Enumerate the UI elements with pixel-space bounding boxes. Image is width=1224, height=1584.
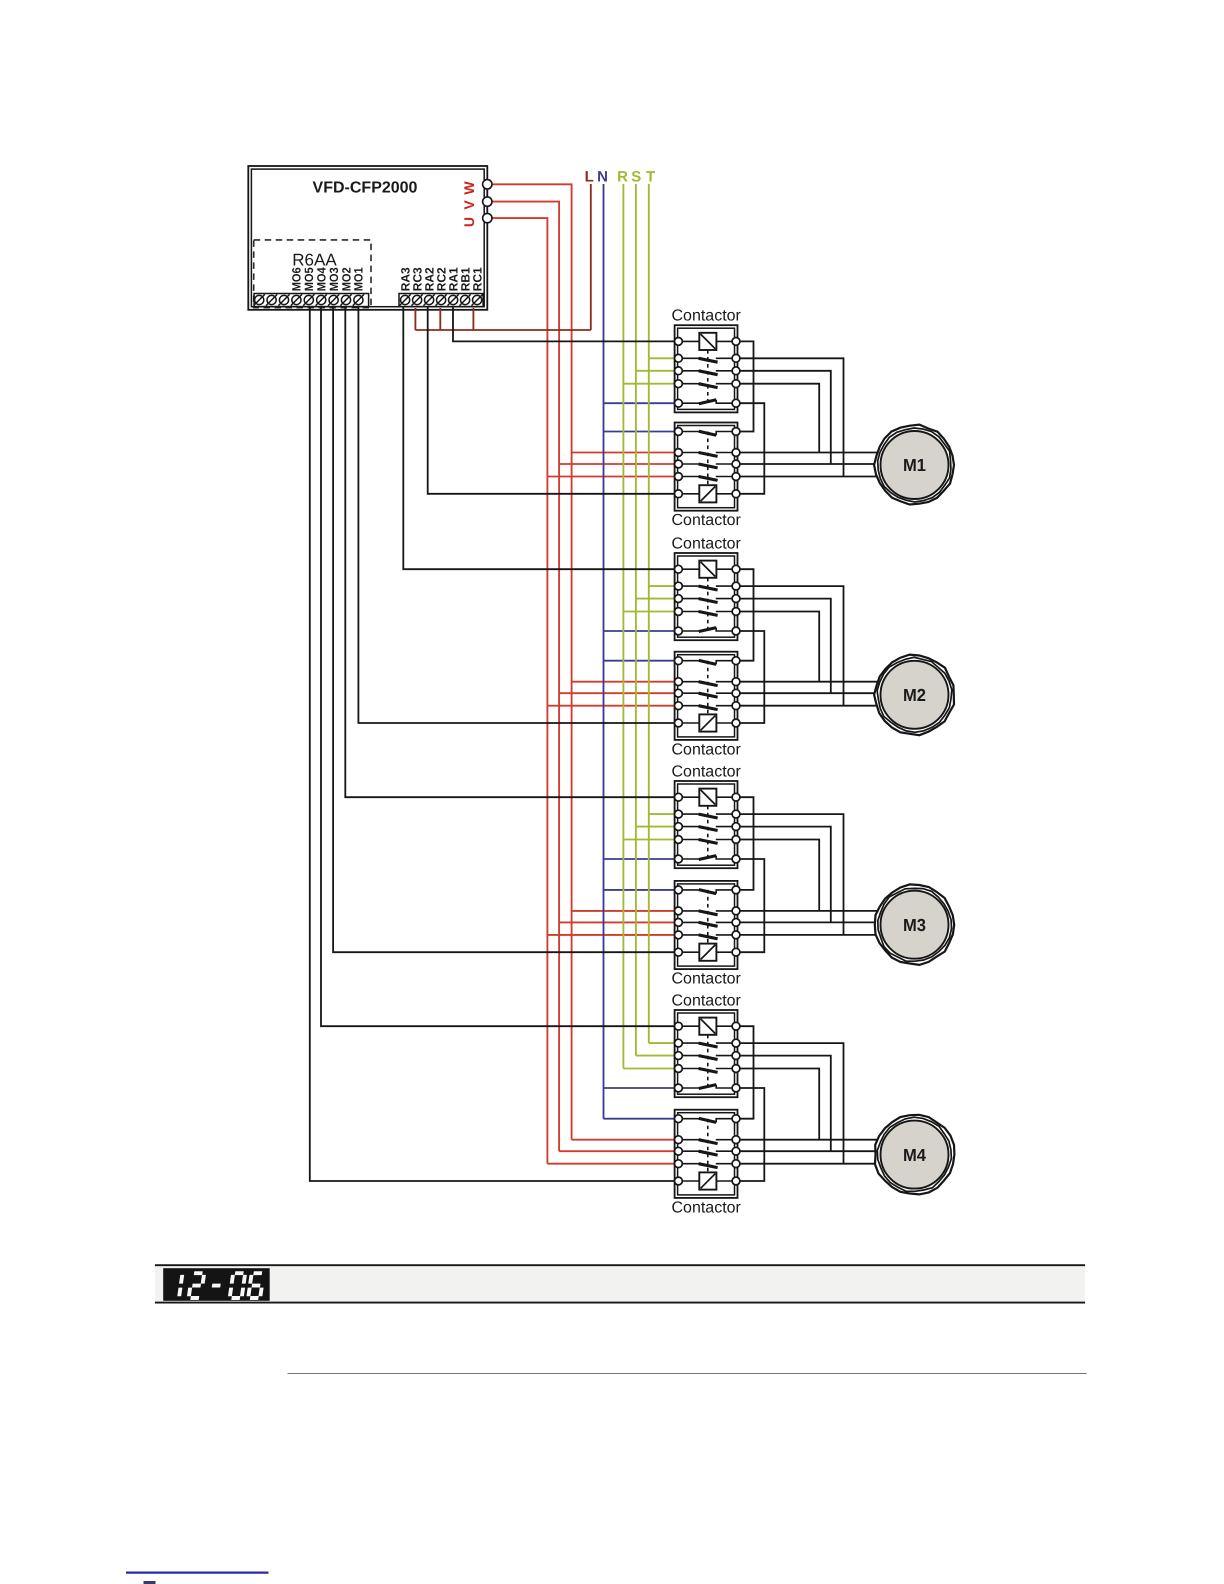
motor M2: [874, 655, 954, 736]
wire MO1 to contactor K2B coil: [358, 307, 676, 723]
svg-text:Contactor: Contactor: [672, 971, 742, 988]
svg-text:S: S: [631, 169, 641, 186]
terminal RA1: [446, 267, 460, 306]
option card R6AA: [254, 240, 371, 308]
contactor K1A (mains bypass): [675, 325, 740, 412]
svg-text:M2: M2: [903, 685, 926, 705]
net label S: [631, 169, 641, 186]
wire V (VFD output phase): [487, 202, 676, 1152]
wire RA1 to contactor K1A coil feed: [453, 307, 676, 341]
relay output terminal strip MO6..MO1: [254, 294, 369, 307]
net label R: [617, 169, 628, 186]
wire motor M4 lead 1: [736, 1139, 877, 1141]
wire motor M4 lead 2: [736, 1150, 877, 1152]
wire RA3 to contactor K2A coil feed: [403, 307, 676, 569]
svg-text:M4: M4: [903, 1145, 926, 1165]
wire K3A aux NO to K3B coil circuit: [736, 797, 754, 890]
section separator rule: [288, 1373, 1087, 1375]
wire K3A interlock to K3B coil: [736, 859, 764, 952]
svg-text:M1: M1: [903, 455, 926, 475]
label U V W (output phases): [461, 181, 477, 227]
terminal U: [483, 213, 492, 222]
wire K3A L3 bypass to motor lead 1: [736, 840, 819, 911]
wire motor M2 lead 2: [736, 692, 877, 694]
svg-text:Contactor: Contactor: [672, 993, 742, 1010]
svg-text:U: U: [461, 217, 477, 227]
contactor K3B (VFD side): [675, 881, 740, 969]
terminal MO6: [290, 267, 304, 306]
svg-text:Contactor: Contactor: [672, 764, 742, 781]
wire K4A L1 bypass to motor lead 3: [736, 1043, 844, 1164]
contactor K2B (VFD side): [675, 652, 740, 740]
label Contactor (below K4B): [672, 1199, 742, 1216]
label Contactor (below K2B): [672, 741, 742, 758]
wire motor M3 lead 1: [736, 910, 877, 912]
svg-text:W: W: [461, 181, 477, 195]
svg-text:Contactor: Contactor: [672, 512, 742, 529]
net label L: [585, 169, 594, 186]
label Contactor (above K4A): [672, 993, 742, 1010]
terminal RC2: [434, 267, 448, 306]
terminal MO spare 2: [266, 294, 277, 305]
svg-text:RC1: RC1: [470, 267, 484, 291]
wire T (mains phase): [649, 184, 676, 1043]
contactor K4B (VFD side): [675, 1110, 740, 1198]
wire K1A L1 bypass to motor lead 3: [736, 358, 844, 476]
wire MO3 to contactor K3B coil: [333, 307, 676, 952]
svg-text:N: N: [597, 169, 608, 186]
terminal MO1: [352, 267, 366, 306]
wire motor M2 lead 1: [736, 681, 877, 683]
wire motor M3 lead 3: [736, 934, 877, 936]
net label T: [646, 169, 655, 186]
contactor K4A (mains bypass): [675, 1010, 740, 1097]
wire RA2 to contactor K1B coil: [428, 307, 676, 494]
svg-text:Contactor: Contactor: [672, 308, 742, 325]
terminal MO5: [302, 267, 316, 306]
motor M1: [874, 425, 954, 505]
wire K4A L3 bypass to motor lead 1: [736, 1069, 819, 1140]
svg-text:R: R: [617, 169, 628, 186]
label Contactor (above K3A): [672, 764, 742, 781]
svg-text:VFD-CFP2000: VFD-CFP2000: [313, 180, 418, 197]
seven-segment display 12-06: [163, 1268, 270, 1301]
wire motor M2 lead 3: [736, 705, 877, 707]
wire U (VFD output phase): [487, 218, 676, 1164]
wire motor M3 lead 2: [736, 921, 877, 923]
svg-text:Contactor: Contactor: [672, 1199, 742, 1216]
terminal RC3: [410, 267, 424, 306]
wire K1A L2 bypass to motor lead 2: [736, 371, 831, 464]
terminal RA3: [398, 267, 412, 306]
terminal MO3: [327, 267, 341, 306]
wire K4A L2 bypass to motor lead 2: [736, 1056, 831, 1152]
label Contactor (below K3B): [672, 971, 742, 988]
wire K3A L1 bypass to motor lead 3: [736, 814, 844, 935]
relay terminal strip RA3..RC1: [399, 294, 483, 307]
terminal MO2: [339, 267, 353, 306]
wire K1A L3 bypass to motor lead 1: [736, 384, 819, 453]
wire K2A aux NO to K2B coil circuit: [736, 569, 754, 661]
wire K2A L3 bypass to motor lead 1: [736, 612, 819, 682]
svg-text:L: L: [585, 169, 594, 186]
motor M4: [875, 1115, 954, 1195]
net label N: [597, 169, 608, 186]
terminal MO4: [315, 267, 329, 306]
wire N (neutral): [604, 184, 677, 1119]
contactor K1B (VFD side): [675, 423, 740, 511]
wire motor M1 lead 3: [736, 476, 877, 478]
wire motor M1 lead 1: [736, 452, 877, 454]
wire motor M4 lead 3: [736, 1163, 877, 1165]
wire K2A L1 bypass to motor lead 3: [736, 586, 844, 706]
wire K2A interlock to K2B coil: [736, 631, 764, 723]
terminal RA2: [422, 267, 436, 306]
label Contactor (below K1B): [672, 512, 742, 529]
svg-text:MO1: MO1: [352, 267, 366, 291]
wire K4A aux NO to K4B coil circuit: [736, 1026, 754, 1119]
wire K1A interlock to K1B coil: [736, 403, 764, 494]
svg-text:M3: M3: [903, 915, 926, 935]
terminal MO spare 3: [278, 294, 289, 305]
terminal RB1: [458, 267, 472, 306]
footer link underline: [126, 1571, 269, 1573]
wire L (line): [415, 184, 590, 330]
svg-text:R6AA: R6AA: [292, 251, 337, 270]
wire MO2 to contactor K3A coil feed: [345, 307, 676, 797]
svg-text:V: V: [461, 200, 477, 210]
parameter group bar: [155, 1265, 1085, 1303]
terminal V: [483, 197, 492, 206]
terminal W: [483, 180, 492, 189]
wire MO5 to contactor K4B coil: [310, 307, 676, 1181]
wire K3A L2 bypass to motor lead 2: [736, 827, 831, 923]
terminal MO spare 1: [254, 294, 265, 305]
wire K1A aux NO to K1B coil circuit: [736, 341, 754, 431]
svg-text:Contactor: Contactor: [672, 536, 742, 553]
wire S (mains phase): [636, 184, 676, 1056]
footer text remnant: [144, 1581, 156, 1584]
svg-text:Contactor: Contactor: [672, 741, 742, 758]
wire MO4 to contactor K4A coil feed: [321, 307, 676, 1026]
label Contactor (above K2A): [672, 536, 742, 553]
wire R (mains phase): [623, 184, 676, 1069]
label Contactor (above K1A): [672, 308, 742, 325]
contactor K2A (mains bypass): [675, 553, 740, 640]
wire W (VFD output phase): [487, 184, 676, 1139]
label R6AA: [292, 251, 337, 270]
wire motor M1 lead 2: [736, 463, 877, 465]
svg-text:T: T: [646, 169, 655, 186]
terminal RC1: [470, 267, 484, 306]
VFD drive VFD-CFP2000: [248, 166, 487, 310]
motor M3: [875, 884, 954, 965]
contactor K3A (mains bypass): [675, 781, 740, 868]
wire K4A interlock to K4B coil: [736, 1088, 764, 1181]
wire K2A L2 bypass to motor lead 2: [736, 599, 831, 694]
